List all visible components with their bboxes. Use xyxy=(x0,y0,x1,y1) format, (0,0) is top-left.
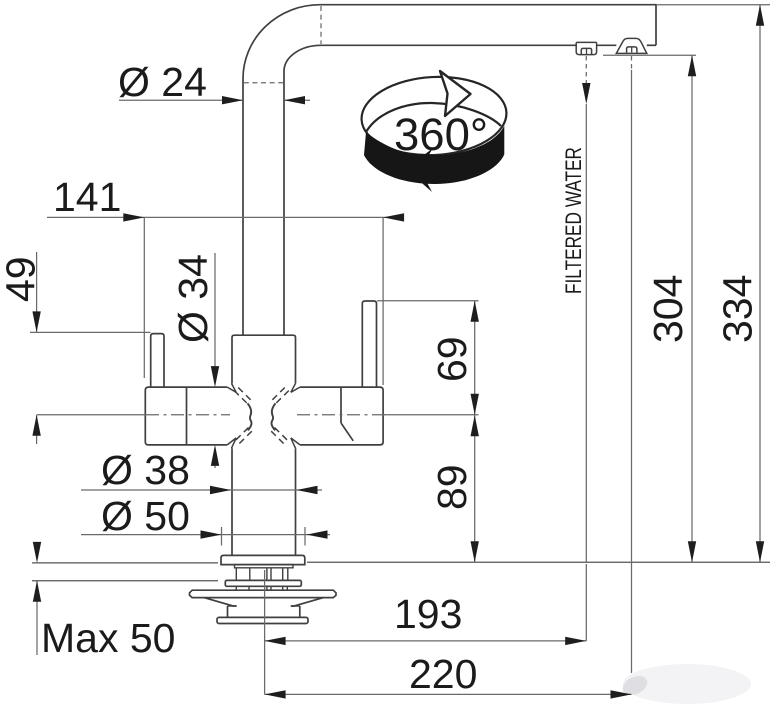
svg-text:Ø 38: Ø 38 xyxy=(101,447,190,493)
svg-text:334: 334 xyxy=(715,275,761,343)
svg-text:Ø 24: Ø 24 xyxy=(118,59,207,105)
svg-text:89: 89 xyxy=(429,464,475,510)
svg-text:304: 304 xyxy=(645,275,691,343)
svg-text:220: 220 xyxy=(409,651,477,697)
svg-text:69: 69 xyxy=(429,336,475,382)
svg-text:Ø 34: Ø 34 xyxy=(170,254,216,343)
svg-text:360°: 360° xyxy=(394,109,488,160)
svg-text:Max 50: Max 50 xyxy=(41,615,175,661)
svg-text:193: 193 xyxy=(394,591,462,637)
svg-text:FILTERED WATER: FILTERED WATER xyxy=(561,147,586,294)
svg-text:49: 49 xyxy=(0,256,44,302)
svg-text:141: 141 xyxy=(53,174,121,220)
svg-text:Ø 50: Ø 50 xyxy=(101,493,190,539)
